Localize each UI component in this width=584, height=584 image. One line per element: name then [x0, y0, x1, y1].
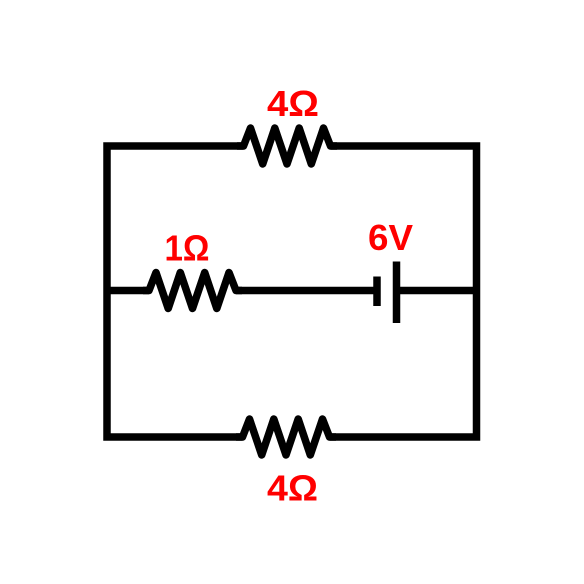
battery V1 positive plate (long): [393, 262, 401, 324]
wire: middle branch from R2 to battery negative plate: [236, 287, 377, 295]
resistor R1 4Ω (top): [237, 128, 337, 164]
wire: middle branch from left vertical to R2: [107, 287, 149, 295]
wire: outer loop left half (top wire left of R1, left vertical, bottom wire left of R3): [107, 146, 244, 437]
battery V1 negative plate (short): [373, 277, 381, 307]
svg-text:4Ω: 4Ω: [267, 468, 318, 509]
wire: middle branch from battery positive plate to right vertical: [397, 287, 477, 295]
resistor R2 1Ω (middle): [143, 273, 242, 309]
svg-text:1Ω: 1Ω: [165, 228, 210, 269]
wire: outer loop right half (top wire right of R1, right vertical, bottom wire right of R3): [330, 146, 477, 437]
svg-text:6V: 6V: [368, 217, 413, 258]
svg-text:4Ω: 4Ω: [267, 83, 319, 124]
resistor R3 4Ω (bottom): [236, 419, 336, 455]
